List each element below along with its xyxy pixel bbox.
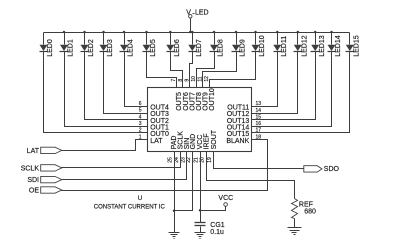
pin 10 OUT8 (top) xyxy=(191,76,203,111)
wire LED0 cathode to OUT0 pin 2 xyxy=(44,52,148,133)
wire OE port to pin 18 BLANK xyxy=(62,140,268,191)
svg-text:SDI: SDI xyxy=(27,177,39,184)
pin 22 GND (bottom) xyxy=(186,134,197,163)
svg-text:VCC: VCC xyxy=(218,195,233,202)
svg-text:7: 7 xyxy=(171,79,177,82)
wire SCLK port to pin 24 xyxy=(62,152,181,168)
svg-text:15: 15 xyxy=(256,114,262,120)
wire LED8 cathode to OUT8 pin 10 xyxy=(197,52,215,88)
LED LED4 xyxy=(120,31,135,57)
svg-text:LED0: LED0 xyxy=(47,39,54,57)
svg-text:LED6: LED6 xyxy=(174,39,181,57)
wire LED2 cathode to OUT2 pin 4 xyxy=(85,52,148,120)
LED LED2 xyxy=(81,31,96,57)
pin 3 OUT1 (left) xyxy=(139,121,169,132)
svg-text:LAT: LAT xyxy=(27,148,40,155)
svg-text:9: 9 xyxy=(184,79,190,82)
pin 25 PAD (bottom) xyxy=(167,136,178,163)
LED LED9 xyxy=(232,31,247,57)
svg-text:REF: REF xyxy=(299,201,313,208)
pin 9 OUT7 (top) xyxy=(184,79,196,111)
svg-text:BLANK: BLANK xyxy=(226,138,249,145)
port SDO xyxy=(304,166,340,174)
svg-text:12: 12 xyxy=(204,76,210,82)
svg-text:LED15: LED15 xyxy=(354,35,361,57)
wire LED7 cathode to OUT7 pin 9 xyxy=(190,52,193,88)
pin 18 BLANK (right) xyxy=(226,134,261,144)
port SDI xyxy=(27,176,61,184)
port OE xyxy=(29,187,62,195)
svg-text:LAT: LAT xyxy=(150,138,163,145)
svg-text:LED8: LED8 xyxy=(218,39,225,57)
wire IREF pin 20 to REF xyxy=(207,152,295,199)
svg-text:680: 680 xyxy=(304,209,316,216)
port SCLK xyxy=(21,165,62,173)
LED LED8 xyxy=(210,31,225,57)
wire SOUT pin 19 to SDO port xyxy=(214,152,304,169)
pin 20 IREF (bottom) xyxy=(200,133,211,162)
LED LED5 xyxy=(143,31,158,57)
svg-text:0.1u: 0.1u xyxy=(210,229,224,236)
ground REF xyxy=(288,227,302,229)
svg-text:LED13: LED13 xyxy=(319,35,326,57)
svg-text:17: 17 xyxy=(256,128,262,134)
LED LED13 xyxy=(311,31,326,57)
wire LAT port to pin 1 xyxy=(62,140,148,151)
svg-text:SDO: SDO xyxy=(324,166,340,173)
pin 5 OUT3 (left) xyxy=(139,108,169,119)
pin 7 OUT5 (top) xyxy=(171,79,183,111)
pin 17 OUT15 (right) xyxy=(227,128,262,138)
pin 12 OUT10 (top) xyxy=(204,76,216,111)
pin 8 OUT6 (top) xyxy=(178,79,190,111)
wire LED12 cathode to OUT12 pin 14 xyxy=(252,52,298,114)
svg-text:5: 5 xyxy=(139,108,142,114)
svg-text:SCLK: SCLK xyxy=(21,165,40,172)
pin 2 OUT0 (left) xyxy=(139,128,169,139)
pin 14 OUT12 (right) xyxy=(227,108,262,118)
ground PAD/GND xyxy=(169,232,180,234)
wire LED6 cathode to OUT6 pin 8 xyxy=(171,52,183,88)
wire LED3 cathode to OUT3 pin 5 xyxy=(104,52,148,114)
pin 6 OUT4 (left) xyxy=(139,101,169,112)
svg-text:14: 14 xyxy=(256,108,262,114)
svg-text:22: 22 xyxy=(186,157,192,163)
LED LED6 xyxy=(166,31,181,57)
svg-text:8: 8 xyxy=(178,79,184,82)
svg-text:SOUT: SOUT xyxy=(211,129,218,149)
capacitor CG1 0.1u xyxy=(195,222,225,236)
wire SDI port to pin 23 SIN xyxy=(62,152,187,180)
wire LED13 cathode to OUT13 pin 15 xyxy=(252,52,316,120)
wire LED9 cathode to OUT9 pin 11 xyxy=(203,52,237,88)
LED LED10 xyxy=(252,31,267,57)
svg-text:16: 16 xyxy=(256,121,262,127)
wire PAD pin 25 to ground xyxy=(174,152,176,233)
wire LED1 cathode to OUT1 pin 3 xyxy=(65,52,148,127)
wire REF to ground xyxy=(294,219,296,228)
svg-text:2: 2 xyxy=(139,128,142,134)
svg-text:3: 3 xyxy=(139,121,142,127)
pin 24 SCLK (bottom) xyxy=(174,131,185,163)
wire LED14 cathode to OUT14 pin 16 xyxy=(252,52,332,127)
svg-text:LED14: LED14 xyxy=(335,35,342,57)
pin 1 LAT (left) xyxy=(139,134,164,145)
pin 11 OUT9 (top) xyxy=(198,76,210,111)
pin 4 OUT2 (left) xyxy=(139,114,169,125)
wire CG1 to ground xyxy=(200,227,202,233)
svg-text:LED5: LED5 xyxy=(150,39,157,57)
pin 15 OUT13 (right) xyxy=(227,114,262,124)
junction GND/PAD xyxy=(173,209,176,212)
svg-text:13: 13 xyxy=(256,101,262,107)
svg-text:LED3: LED3 xyxy=(107,39,114,57)
svg-text:LED7: LED7 xyxy=(196,39,203,57)
svg-text:LED2: LED2 xyxy=(88,39,95,57)
svg-text:OUT10: OUT10 xyxy=(209,88,216,111)
svg-text:LED4: LED4 xyxy=(128,39,135,57)
svg-text:11: 11 xyxy=(198,76,204,81)
svg-text:21: 21 xyxy=(193,157,199,163)
pin 16 OUT14 (right) xyxy=(227,121,262,131)
LED LED0 xyxy=(40,33,55,57)
wire VCC pin 21 down xyxy=(200,152,202,223)
svg-text:25: 25 xyxy=(167,157,173,163)
pin 23 SIN (bottom) xyxy=(180,138,191,163)
svg-text:OE: OE xyxy=(29,188,39,195)
wire LED11 cathode to OUT11 pin 13 xyxy=(252,52,278,107)
LED LED7 xyxy=(188,31,203,57)
svg-text:CONSTANT CURRENT IC: CONSTANT CURRENT IC xyxy=(94,204,166,210)
svg-text:LED: LED xyxy=(195,10,209,17)
LED LED15 xyxy=(346,33,361,57)
LED LED1 xyxy=(60,31,75,57)
power terminal VCC xyxy=(218,195,233,206)
LED LED12 xyxy=(294,31,309,57)
wire VCC node to terminal xyxy=(201,207,226,211)
resistor REF 680 xyxy=(292,199,316,219)
wire LED15 cathode to OUT15 pin 17 xyxy=(252,52,350,133)
port LAT xyxy=(27,147,62,155)
LED LED14 xyxy=(328,31,343,57)
junction VCC node xyxy=(199,209,202,212)
svg-text:19: 19 xyxy=(207,157,213,163)
LED LED11 xyxy=(273,31,288,57)
svg-text:6: 6 xyxy=(139,101,142,107)
wire LED5 cathode to OUT5 pin 7 xyxy=(147,52,177,88)
pin 21 VCC (bottom) xyxy=(193,135,204,163)
IC U (constant current LED driver) body xyxy=(148,88,252,152)
svg-text:LED9: LED9 xyxy=(240,39,247,57)
svg-text:GND: GND xyxy=(190,134,197,150)
svg-text:LED1: LED1 xyxy=(68,39,75,57)
wire GND pin 22 to PAD wire xyxy=(175,152,193,211)
LED LED3 xyxy=(100,31,115,57)
ground CG1 xyxy=(195,232,206,234)
pin 19 SOUT (bottom) xyxy=(207,129,218,163)
wire LED10 cathode to OUT10 pin 12 xyxy=(210,52,256,88)
wire LED4 cathode to OUT4 pin 6 xyxy=(125,52,148,107)
svg-text:10: 10 xyxy=(191,76,197,82)
wire V-LED rail xyxy=(44,32,350,34)
svg-text:U: U xyxy=(138,196,142,202)
svg-text:CG1: CG1 xyxy=(210,222,225,229)
svg-text:LED12: LED12 xyxy=(302,35,309,57)
svg-text:LED11: LED11 xyxy=(281,36,288,57)
svg-text:LED10: LED10 xyxy=(259,35,266,57)
pin 13 OUT11 (right) xyxy=(227,101,261,111)
svg-text:4: 4 xyxy=(139,114,142,120)
svg-text:IREF: IREF xyxy=(204,133,211,149)
